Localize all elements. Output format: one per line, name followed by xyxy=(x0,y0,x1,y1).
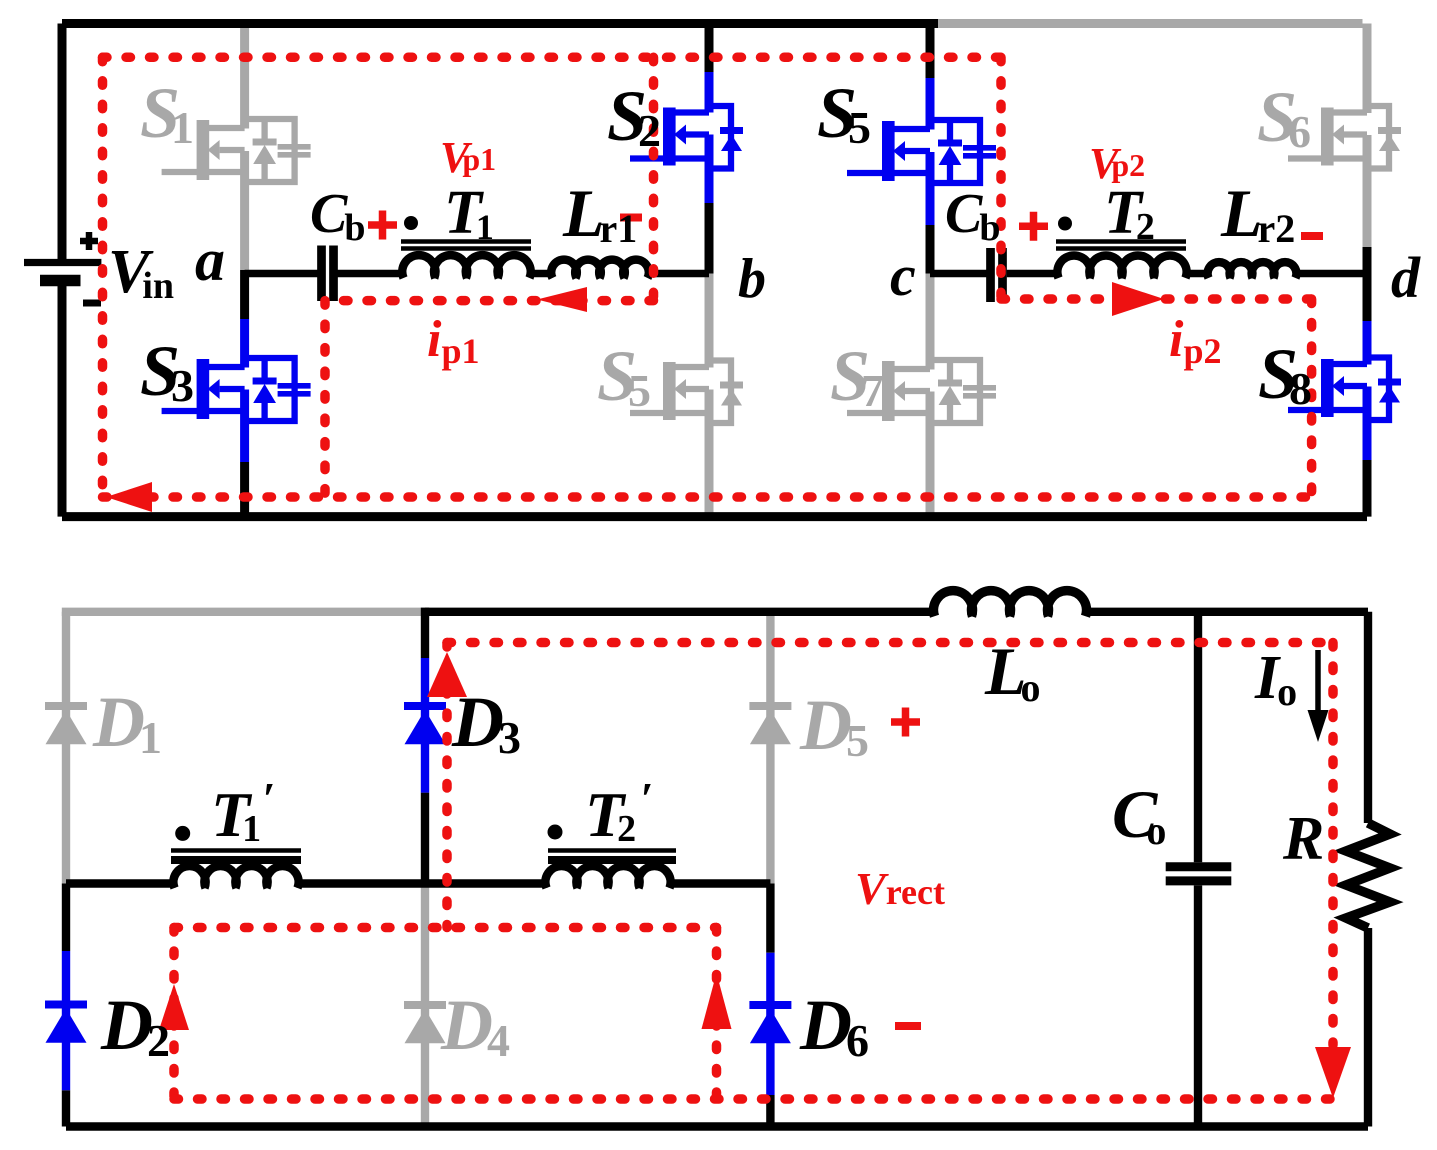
svg-text:b: b xyxy=(738,248,766,310)
svg-text:a: a xyxy=(195,227,225,293)
svg-text:Vp2: Vp2 xyxy=(1089,139,1145,188)
svg-text:c: c xyxy=(890,243,916,308)
svg-text:R: R xyxy=(1282,805,1324,873)
svg-text:Vp1: Vp1 xyxy=(440,133,496,182)
svg-text:d: d xyxy=(1391,245,1421,310)
